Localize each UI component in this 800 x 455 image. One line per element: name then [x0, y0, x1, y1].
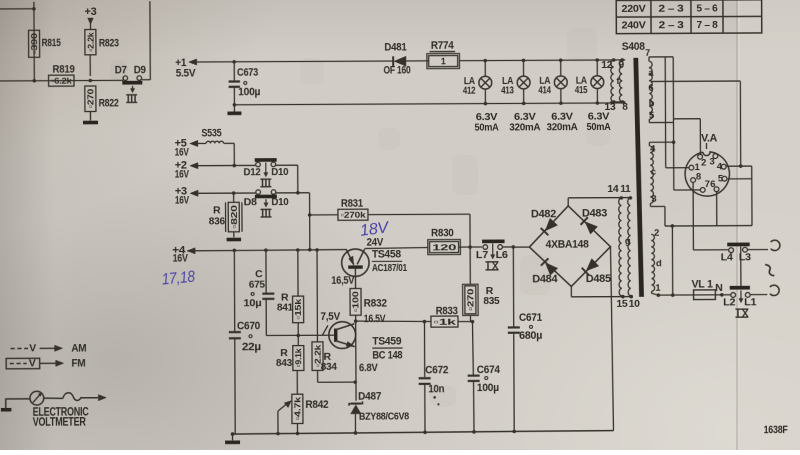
- transformer secondary winding 14-11: [619, 198, 622, 296]
- svg-text:▫4.7k: ▫4.7k: [292, 397, 302, 421]
- wire: [459, 246, 482, 248]
- transformer secondary winding 10-15: [628, 198, 631, 296]
- svg-text:OF 160: OF 160: [384, 65, 411, 77]
- wire: [740, 247, 742, 286]
- svg-text:D8: D8: [244, 196, 258, 208]
- svg-text:4XBA148: 4XBA148: [546, 239, 589, 251]
- symbol AC: [765, 263, 774, 277]
- svg-text:50mA: 50mA: [474, 121, 499, 133]
- electronic voltmeter: [5, 398, 7, 408]
- svg-text:835: 835: [483, 295, 499, 307]
- wiper: [277, 411, 279, 433]
- svg-text:3: 3: [709, 156, 714, 167]
- wire: [503, 246, 515, 248]
- svg-text:16.5V: 16.5V: [364, 313, 386, 325]
- ground: [89, 112, 91, 121]
- svg-text:D482: D482: [531, 208, 556, 220]
- svg-text:22µ: 22µ: [242, 341, 261, 353]
- svg-text:16V: 16V: [173, 253, 189, 265]
- ground: [233, 105, 235, 112]
- svg-text:C670: C670: [237, 320, 260, 332]
- legend FM: [6, 358, 40, 369]
- resistor R822: [89, 55, 91, 76]
- wire: [234, 103, 625, 105]
- wire: [750, 294, 767, 296]
- svg-text:14: 14: [607, 184, 619, 195]
- svg-text:11: 11: [620, 184, 631, 195]
- svg-text:240V: 240V: [621, 19, 645, 31]
- svg-text:b: b: [649, 98, 655, 109]
- bridge rectifier 4XBA148: [529, 206, 610, 287]
- capacitor C671: [512, 247, 514, 326]
- svg-text:16V: 16V: [175, 146, 190, 158]
- svg-text:414: 414: [538, 84, 551, 96]
- wire: [515, 246, 529, 248]
- wire: [406, 60, 428, 62]
- legend AM: [11, 347, 28, 349]
- svg-text:L6: L6: [496, 249, 509, 261]
- svg-text:R822: R822: [99, 97, 119, 109]
- svg-text:6.8V: 6.8V: [359, 362, 378, 374]
- symbol III: [126, 94, 137, 96]
- resistor R815: [29, 30, 40, 57]
- svg-text:S408: S408: [622, 41, 645, 53]
- symbol III: [260, 178, 271, 180]
- svg-text:320mA: 320mA: [509, 121, 541, 133]
- wire: [568, 197, 632, 199]
- svg-text:AM: AM: [71, 342, 86, 354]
- wire: [187, 250, 346, 251]
- svg-text:5.5V: 5.5V: [176, 68, 196, 80]
- resistor R836: [233, 193, 235, 202]
- svg-text:▫390: ▫390: [29, 33, 39, 55]
- svg-text:V.A: V.A: [701, 133, 717, 145]
- svg-text:▫270: ▫270: [465, 288, 475, 311]
- svg-text:17,18: 17,18: [161, 269, 196, 289]
- svg-text:D10: D10: [271, 196, 288, 208]
- wire: [233, 143, 235, 165]
- wire bottom link: [665, 225, 752, 227]
- wire: [310, 214, 338, 216]
- svg-text:AC187/01: AC187/01: [372, 263, 408, 274]
- capacitor C672: [423, 322, 425, 377]
- wire: [613, 59, 625, 61]
- transistor TS459: [329, 322, 356, 349]
- diode D484: [545, 263, 557, 276]
- svg-text:D7: D7: [115, 64, 127, 76]
- svg-text:2 – 3: 2 – 3: [658, 3, 684, 15]
- lamp LA415: [596, 60, 598, 76]
- diode D481: [392, 56, 394, 66]
- svg-text:L1: L1: [744, 296, 757, 308]
- svg-text:R830: R830: [431, 227, 454, 239]
- transformer primary winding 2-d-1: [651, 234, 654, 291]
- capacitor C670: [233, 250, 235, 331]
- transistor TS458: [342, 249, 370, 277]
- svg-text:C673: C673: [237, 67, 258, 79]
- svg-text:13: 13: [604, 102, 616, 113]
- svg-text:8: 8: [696, 172, 701, 183]
- symbol III: [261, 208, 272, 210]
- svg-text:2 – 3: 2 – 3: [658, 19, 684, 31]
- transformer primary winding 7-a-6-b-5: [649, 61, 652, 119]
- ground: [233, 232, 235, 237]
- wire tap 7: [649, 56, 673, 58]
- diode D483: [585, 222, 598, 234]
- symbol IX: [735, 308, 748, 310]
- svg-text:9: 9: [619, 60, 625, 71]
- transformer winding 12-13: [611, 60, 614, 102]
- transformer winding 9-8: [619, 60, 622, 102]
- resistor R832: [350, 288, 361, 315]
- svg-text:▫270k: ▫270k: [340, 210, 366, 220]
- voltage selector table: [616, 0, 762, 34]
- svg-text:TS458: TS458: [372, 248, 401, 260]
- wire: [611, 247, 614, 431]
- svg-text:+3: +3: [84, 6, 96, 18]
- wire tap 5-4 to pin 7: [648, 119, 650, 122]
- svg-text:2: 2: [701, 157, 706, 168]
- svg-text:100µ: 100µ: [238, 86, 260, 98]
- wire: [33, 2, 35, 81]
- svg-text:N: N: [715, 282, 722, 294]
- connector D8 D10: [256, 190, 261, 195]
- svg-text:7: 7: [645, 48, 650, 58]
- wire: [365, 247, 429, 248]
- svg-text:220V: 220V: [621, 3, 645, 15]
- wire pin8 down: [692, 182, 694, 249]
- svg-text:50mA: 50mA: [586, 121, 611, 133]
- node N: [715, 294, 730, 296]
- transformer core: [633, 58, 644, 297]
- svg-text:d: d: [656, 258, 662, 269]
- fuse VL1: [658, 294, 693, 296]
- wire: [198, 192, 255, 194]
- svg-text:R832: R832: [364, 297, 387, 309]
- svg-text:L2: L2: [723, 297, 736, 309]
- wire: [570, 286, 572, 296]
- svg-text:10n: 10n: [428, 383, 445, 395]
- connector D12 D10: [256, 162, 261, 167]
- svg-text:1: 1: [441, 56, 446, 66]
- svg-text:▫6.2k: ▫6.2k: [51, 76, 72, 86]
- svg-text:D10: D10: [271, 166, 288, 178]
- svg-text:12: 12: [601, 60, 613, 71]
- transformer primary winding 4-c-3: [650, 146, 653, 203]
- svg-text:g: g: [625, 236, 631, 247]
- svg-text:320mA: 320mA: [546, 121, 578, 133]
- svg-text:C672: C672: [425, 364, 448, 376]
- svg-text:10: 10: [629, 299, 641, 310]
- svg-text:D483: D483: [582, 208, 607, 220]
- wire to mains: [671, 226, 673, 295]
- lamp LA412: [484, 61, 486, 77]
- resistor R834: [316, 250, 318, 342]
- svg-text:D487: D487: [358, 390, 381, 402]
- svg-text:D9: D9: [134, 64, 146, 76]
- svg-text:L7: L7: [476, 249, 489, 261]
- svg-text:V: V: [29, 342, 36, 354]
- svg-text:BZY88/C6V8: BZY88/C6V8: [359, 411, 410, 422]
- wire tap 3: [649, 203, 651, 206]
- wire 16.5V node: [356, 321, 431, 322]
- svg-text:415: 415: [575, 84, 588, 96]
- svg-text:L4: L4: [721, 252, 734, 264]
- resistor R843: [297, 335, 299, 345]
- wire: [276, 192, 310, 194]
- connector L2 L1: [730, 286, 750, 290]
- svg-text:D485: D485: [586, 273, 611, 285]
- svg-text:16V: 16V: [175, 195, 190, 207]
- mains connector: [771, 240, 780, 250]
- svg-text:D481: D481: [384, 41, 406, 53]
- svg-text:R831: R831: [341, 198, 363, 210]
- svg-text:6: 6: [710, 179, 715, 190]
- svg-text:VOLTMETER: VOLTMETER: [33, 416, 87, 428]
- wire pin1 feed: [664, 57, 667, 168]
- svg-text:7,5V: 7,5V: [320, 311, 340, 323]
- svg-text:VL 1: VL 1: [692, 278, 713, 290]
- svg-text:R833: R833: [436, 305, 458, 317]
- svg-text:675: 675: [249, 278, 265, 290]
- capacitor C674: [471, 322, 474, 375]
- svg-text:1638F: 1638F: [764, 424, 789, 436]
- svg-text:R842: R842: [305, 399, 328, 411]
- svg-text:▫100: ▫100: [351, 291, 361, 312]
- svg-text:120: 120: [432, 242, 457, 252]
- lamp LA413: [522, 60, 524, 76]
- wire: [460, 59, 613, 62]
- wire pin2 feed: [699, 119, 701, 155]
- svg-text:834: 834: [321, 361, 337, 373]
- svg-text:▫1k: ▫1k: [433, 317, 456, 327]
- svg-text:836: 836: [209, 215, 225, 227]
- ground rail: [233, 431, 614, 434]
- diode D482: [545, 218, 557, 231]
- svg-text:R819: R819: [53, 64, 75, 76]
- svg-text:680µ: 680µ: [519, 330, 542, 342]
- svg-text:R815: R815: [42, 37, 61, 49]
- diode D485: [586, 259, 599, 271]
- connector D7 D9: [142, 79, 150, 81]
- svg-text:412: 412: [463, 85, 476, 97]
- wire base: [266, 334, 334, 336]
- svg-text:▫15k: ▫15k: [293, 299, 303, 320]
- svg-text:7: 7: [705, 179, 710, 190]
- mains connector: [770, 285, 779, 295]
- wire: [149, 1, 151, 79]
- resistor R823: [85, 29, 96, 54]
- svg-text:TS459: TS459: [372, 335, 401, 347]
- svg-text:413: 413: [501, 84, 514, 96]
- resistor R835: [469, 247, 471, 284]
- svg-text:15: 15: [616, 299, 628, 310]
- zener diode D487: [351, 402, 361, 404]
- svg-text:7 – 8: 7 – 8: [696, 19, 717, 31]
- svg-text:V: V: [29, 357, 36, 369]
- svg-text:S535: S535: [201, 127, 221, 139]
- svg-text:R823: R823: [99, 37, 119, 49]
- wire: [196, 60, 393, 63]
- svg-text:10µ: 10µ: [243, 297, 261, 309]
- svg-text:5 – 6: 5 – 6: [696, 3, 717, 15]
- svg-text:100µ: 100µ: [477, 382, 499, 394]
- svg-text:BC 148: BC 148: [372, 349, 402, 361]
- svg-text:16V: 16V: [175, 168, 190, 180]
- svg-text:▫2.2k: ▫2.2k: [85, 32, 95, 52]
- svg-text:▫820: ▫820: [229, 205, 239, 229]
- svg-text:3: 3: [651, 194, 656, 205]
- wire: [276, 164, 298, 166]
- connector L7 L6: [482, 239, 504, 243]
- symbol IX: [485, 261, 498, 263]
- resistor R841: [297, 250, 299, 296]
- wire: [651, 291, 653, 293]
- svg-text:C671: C671: [519, 312, 542, 324]
- svg-text:6: 6: [648, 83, 653, 94]
- wire tap a to pin4: [650, 80, 740, 82]
- svg-text:▫9.1k: ▫9.1k: [293, 348, 303, 367]
- capacitor C675: [265, 250, 267, 292]
- resistor R819: [49, 75, 74, 86]
- svg-text:D484: D484: [532, 273, 558, 285]
- wire: [0, 79, 123, 82]
- wire: [198, 164, 255, 166]
- connector L4 L3: [693, 249, 728, 251]
- svg-text:841: 841: [277, 302, 293, 314]
- wire: [354, 319, 358, 323]
- lamp LA414: [560, 60, 562, 76]
- svg-text:16,5V: 16,5V: [331, 275, 355, 287]
- svg-text:843: 843: [276, 357, 292, 369]
- svg-text:2: 2: [654, 228, 659, 239]
- svg-text:FM: FM: [71, 357, 85, 369]
- svg-text:24V: 24V: [367, 237, 384, 249]
- wire: [316, 341, 318, 343]
- capacitor C673: [233, 62, 235, 80]
- ground: [232, 434, 234, 440]
- svg-text:D12: D12: [244, 166, 261, 178]
- svg-text:C674: C674: [477, 364, 501, 376]
- wire pin4-pin5 link: [726, 165, 752, 167]
- svg-text:▫270: ▫270: [85, 89, 95, 109]
- svg-text:R774: R774: [431, 40, 455, 52]
- svg-text:c: c: [651, 167, 656, 178]
- resistor R842 potentiometer: [296, 371, 298, 395]
- wire pin6 down: [716, 191, 718, 225]
- svg-text:8: 8: [622, 102, 628, 113]
